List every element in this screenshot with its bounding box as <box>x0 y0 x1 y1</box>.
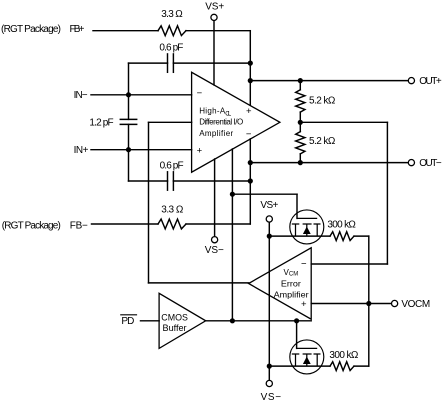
svg-text:VS−: VS− <box>205 245 224 256</box>
svg-text:1.2 pF: 1.2 pF <box>89 118 113 129</box>
svg-text:VS−: VS− <box>261 392 282 403</box>
svg-text:VOCM: VOCM <box>401 299 430 310</box>
svg-text:−: − <box>246 129 252 140</box>
svg-text:VS+: VS+ <box>260 200 278 211</box>
svg-text:VS+: VS+ <box>205 2 224 13</box>
svg-text:OUT+: OUT+ <box>419 76 442 87</box>
svg-text:−: − <box>301 258 307 269</box>
svg-text:+: + <box>246 106 252 117</box>
svg-text:FB−: FB− <box>70 220 88 231</box>
svg-text:High-A: High-A <box>199 107 226 116</box>
svg-text:Error: Error <box>281 279 301 288</box>
svg-text:IN−: IN− <box>74 90 88 101</box>
svg-text:Differential I/O: Differential I/O <box>199 118 243 127</box>
svg-text:0.6 pF: 0.6 pF <box>160 160 184 171</box>
svg-text:IN+: IN+ <box>74 145 89 156</box>
svg-text:−: − <box>197 88 203 99</box>
svg-text:0.6 pF: 0.6 pF <box>159 42 183 53</box>
svg-text:FB+: FB+ <box>70 24 85 35</box>
svg-text:300 kΩ: 300 kΩ <box>327 220 356 231</box>
svg-text:3.3 Ω: 3.3 Ω <box>161 204 184 215</box>
svg-text:Buffer: Buffer <box>163 323 187 333</box>
svg-text:(RGT Package): (RGT Package) <box>1 24 61 35</box>
svg-text:(RGT Package): (RGT Package) <box>2 220 61 231</box>
svg-text:300 kΩ: 300 kΩ <box>329 350 359 361</box>
svg-text:PD: PD <box>121 316 134 327</box>
svg-text:+: + <box>301 299 307 310</box>
svg-text:VCM: VCM <box>284 268 299 278</box>
svg-text:3.3 Ω: 3.3 Ω <box>161 9 183 20</box>
svg-text:5.2 kΩ: 5.2 kΩ <box>309 96 336 107</box>
svg-text:Amplifier: Amplifier <box>199 129 233 138</box>
svg-text:CMOS: CMOS <box>161 312 188 322</box>
svg-text:CL: CL <box>225 111 232 117</box>
svg-text:OUT−: OUT− <box>419 158 442 169</box>
svg-text:+: + <box>197 145 203 156</box>
svg-text:5.2 kΩ: 5.2 kΩ <box>309 136 336 147</box>
